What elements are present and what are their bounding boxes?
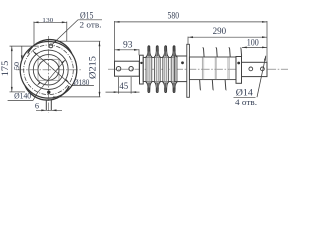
flange horizontal centerline (16, 69, 82, 71)
svg-text:Ø140: Ø140 (14, 91, 31, 101)
svg-text:45: 45 (119, 81, 128, 91)
bottom tab right edge (50, 100, 52, 111)
right terminal block (242, 62, 268, 76)
centerline of insulator side view (108, 68, 288, 70)
dimension Ø215 bottom arrow (99, 92, 101, 97)
right section shed 3 bottom spike (225, 80, 226, 90)
extension line right end x=267 (266, 21, 268, 62)
leader chord for Ø180 (33, 51, 72, 86)
dimension 175 top arrow (11, 46, 13, 51)
dimension 130 right arrow (62, 21, 67, 23)
extension line y=96.9 for Ø215 (53, 96, 100, 98)
dimension 93 right arrow (134, 49, 139, 51)
label Ø15 arrow (53, 40, 57, 44)
dimension Ø215 line (99, 41, 101, 97)
dimension 290 line (188, 36, 267, 38)
svg-text:Ø215: Ø215 (89, 56, 99, 79)
bolt hole bottom (dot) (47, 91, 50, 94)
Ø140 chord arrow upper-right (61, 60, 65, 64)
right core cylinder (189, 57, 236, 80)
svg-text:130: 130 (42, 17, 54, 24)
left section shed 1 (146, 58, 152, 82)
extension line y=46.1 (10, 45, 39, 47)
flange circle Ø215 (20, 42, 77, 99)
dimension 290 right arrow (262, 36, 267, 38)
dimension 580 left arrow (115, 21, 120, 23)
label Ø14 shelf (234, 96, 256, 98)
right section shed 2 through-core line (214, 57, 216, 79)
square body behind flange (38, 59, 59, 80)
dimension 45 right outside arrow (131, 91, 136, 93)
dimension 100 line (242, 46, 267, 48)
Ø180 chord arrow upper-left (33, 51, 37, 55)
bolt hole Ø15 top (49, 44, 53, 48)
label Ø180 shelf (72, 85, 94, 87)
dimension 45 line (106, 91, 140, 93)
intermediate flange plate (187, 44, 190, 97)
label Ø15 leader (53, 20, 78, 44)
dimension 100 left arrow (242, 47, 247, 49)
left section shed 2 (154, 58, 160, 82)
svg-text:4 отв.: 4 отв. (235, 98, 257, 107)
leader line for hole Ø14 (257, 56, 266, 97)
right end plate rivet dot (237, 62, 240, 65)
left section shed 4 (171, 58, 177, 82)
extension line x=66.8 for dim 130 (66, 22, 68, 42)
dimension 45 left outside arrow (114, 91, 119, 93)
label Ø140 shelf (8, 99, 33, 101)
dimension 175 bottom arrow (11, 87, 13, 92)
dimension 50 line (21, 46, 23, 60)
dimension 6 left outside arrow (41, 109, 46, 111)
right section shed 2 bottom spike (212, 80, 213, 90)
right section shed 2 top spike (216, 48, 218, 57)
bracket hole 2 (129, 67, 133, 71)
dimension Ø215 top arrow (99, 41, 101, 46)
dimension 93 left arrow (115, 49, 120, 51)
extension line y=41.2 for Ø215 (57, 40, 100, 42)
Ø180 chord arrow lower-right (65, 79, 69, 83)
dimension 93 line (115, 49, 140, 51)
dimension 45 extension line 1 (118, 77, 120, 94)
svg-text:6: 6 (35, 101, 39, 110)
bracket hole 1 (116, 67, 120, 71)
svg-text:580: 580 (168, 11, 180, 21)
svg-text:Ø180: Ø180 (73, 77, 89, 87)
right section shed 3 through-core line (227, 57, 229, 79)
dimension 175 line (11, 46, 13, 92)
svg-text:290: 290 (213, 26, 227, 36)
left section shed 3 (163, 58, 169, 82)
flange vertical centerline (48, 36, 50, 113)
dimension 6 right outside arrow (52, 109, 57, 111)
left terminal bracket (115, 61, 140, 76)
dimension 100 right arrow (262, 47, 267, 49)
oval flange bottom arc (25, 86, 69, 100)
leader arrow for hole Ø14 (264, 55, 266, 60)
dimension 130 line (34, 21, 67, 23)
right section shed 1 bottom spike (200, 80, 201, 90)
terminal hole 2 (261, 67, 265, 71)
left collar plate (140, 55, 144, 84)
right section shed 3 top spike (229, 48, 231, 57)
dimension 45 extension line 2 (130, 77, 132, 94)
leader chord for Ø140 (33, 60, 65, 101)
middle block rivet dot (181, 61, 184, 64)
svg-text:50: 50 (12, 62, 21, 70)
bottom tab left edge (45, 100, 47, 111)
flange hub circle (38, 59, 59, 80)
oval flange top arc (28, 40, 72, 54)
svg-text:100: 100 (247, 37, 259, 47)
terminal hole 1 (249, 67, 253, 71)
middle block (175, 56, 187, 82)
extension line x=139 for dim 93 (138, 49, 140, 55)
extension line x=34 for dim 130 (33, 22, 35, 47)
extension line x=188 for dim 290 (187, 37, 189, 45)
dimension 580 line (115, 21, 268, 23)
left core cylinder (143, 58, 175, 82)
right section shed 1 through-core line (201, 57, 203, 79)
svg-text:175: 175 (0, 61, 11, 77)
extension line left end x=114.5 (114, 21, 116, 61)
dimension 130 left arrow (34, 21, 39, 23)
dimension 290 left arrow (188, 36, 193, 38)
bolt circle Ø180 (24, 45, 74, 95)
right section shed 1 top spike (203, 48, 205, 57)
flange circle Ø140 (29, 50, 68, 89)
svg-text:Ø14: Ø14 (236, 88, 254, 98)
right end plate (236, 57, 242, 84)
svg-text:2 отв.: 2 отв. (80, 21, 102, 30)
svg-text:Ø15: Ø15 (80, 10, 94, 20)
Ø140 chord arrow lower-left (37, 82, 41, 86)
svg-text:93: 93 (123, 39, 133, 49)
dimension 6 line (36, 109, 62, 111)
flange inner circle (33, 55, 63, 85)
right section shed on end plate top spike (240, 48, 241, 56)
dimension 580 right arrow (262, 21, 267, 23)
left collar rivet dot (140, 62, 142, 64)
label Ø15 shelf (78, 19, 102, 21)
extension line y=91.9 (10, 91, 26, 93)
dimension 50 bottom arrow (21, 55, 23, 60)
